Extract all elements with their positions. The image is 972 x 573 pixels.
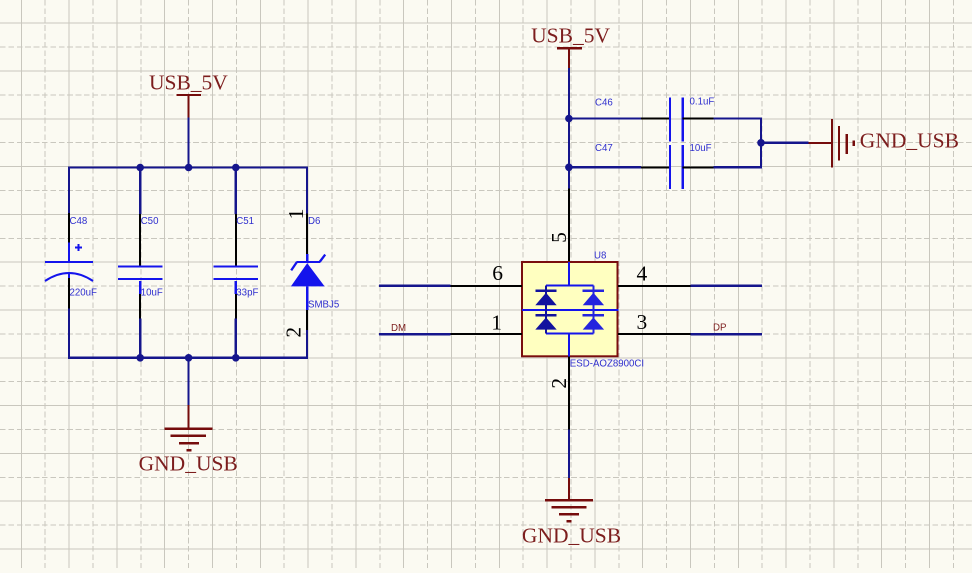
svg-text:GND_USB: GND_USB [139, 452, 238, 476]
svg-text:5: 5 [547, 232, 571, 243]
svg-text:SMBJ5: SMBJ5 [308, 300, 339, 311]
svg-text:C47: C47 [595, 143, 613, 154]
svg-text:2: 2 [547, 378, 571, 389]
svg-text:DM: DM [391, 323, 406, 334]
svg-text:D6: D6 [308, 216, 320, 227]
svg-text:0.1uF: 0.1uF [690, 96, 715, 107]
svg-text:U8: U8 [594, 250, 606, 261]
svg-text:C51: C51 [236, 216, 254, 227]
svg-text:3: 3 [637, 310, 648, 334]
svg-text:C50: C50 [141, 216, 159, 227]
svg-text:220uF: 220uF [70, 288, 98, 299]
svg-text:10uF: 10uF [141, 288, 163, 299]
svg-text:1: 1 [284, 209, 308, 220]
svg-text:1: 1 [491, 311, 502, 335]
svg-text:DP: DP [713, 323, 726, 334]
svg-text:C48: C48 [70, 216, 88, 227]
svg-text:33pF: 33pF [236, 288, 258, 299]
svg-text:4: 4 [637, 262, 648, 286]
svg-text:10uF: 10uF [690, 143, 712, 154]
svg-text:USB_5V: USB_5V [531, 24, 610, 48]
svg-text:ESD-AOZ8900CI: ESD-AOZ8900CI [570, 359, 644, 370]
svg-text:GND_USB: GND_USB [522, 523, 621, 547]
svg-text:USB_5V: USB_5V [149, 71, 228, 95]
svg-text:2: 2 [282, 327, 306, 338]
svg-text:6: 6 [492, 261, 503, 285]
svg-text:C46: C46 [595, 97, 613, 108]
svg-text:GND_USB: GND_USB [860, 129, 959, 153]
